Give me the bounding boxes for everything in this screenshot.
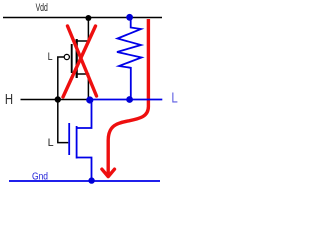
PMOS drain lead down to output node xyxy=(77,74,89,100)
junction dot PMOS source on Vdd rail xyxy=(85,15,91,21)
output wire (L node) xyxy=(88,99,162,101)
red X over PMOS (transistor off) xyxy=(63,26,97,97)
wire from H node down to NMOS gate xyxy=(58,100,69,143)
PMOS transistor Q1 gate bubble xyxy=(64,54,69,59)
red current path arrow xyxy=(102,19,148,177)
svg-text:L: L xyxy=(48,137,54,149)
svg-text:L: L xyxy=(48,51,53,63)
H input wire xyxy=(21,99,90,101)
svg-text:Gnd: Gnd xyxy=(32,172,48,183)
PMOS source lead to Vdd xyxy=(77,18,89,42)
PMOS gate bar xyxy=(71,44,73,73)
Gnd rail xyxy=(9,180,160,182)
svg-text:H: H xyxy=(5,92,13,108)
svg-text:Vdd: Vdd xyxy=(36,2,48,14)
NMOS transistor Q2 gate bar xyxy=(68,123,70,155)
junction dot resistor bottom on output wire xyxy=(126,96,133,103)
Vdd rail xyxy=(3,17,162,19)
node junction dot on H wire xyxy=(55,96,61,102)
resistor R (pull-down load) zigzag xyxy=(117,18,142,100)
svg-text:L: L xyxy=(171,89,177,106)
wire from H node up to PMOS gate xyxy=(58,57,64,100)
NMOS drain lead up to output node xyxy=(77,100,92,129)
PMOS channel bar xyxy=(76,39,78,78)
junction dot resistor top on Vdd rail xyxy=(126,14,133,21)
junction dot NMOS source on Gnd rail xyxy=(88,177,94,183)
junction dot output node xyxy=(86,96,93,103)
NMOS source lead down to Gnd xyxy=(77,158,92,181)
NMOS channel bar xyxy=(76,126,78,159)
